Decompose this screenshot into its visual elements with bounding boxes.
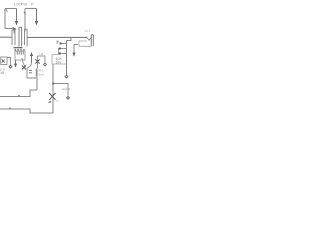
arrow A1 down (right of center) bbox=[74, 45, 78, 54]
loop L2 left wire bbox=[24, 9, 26, 32]
svg-text:10n: 10n bbox=[56, 60, 62, 64]
pin label 2 bbox=[57, 41, 59, 43]
wire main left bbox=[0, 36, 12, 38]
junction dot branch bbox=[52, 83, 54, 85]
wire curve from J1 to K1 coil bbox=[22, 58, 26, 67]
transformer T1 lead ticks bbox=[15, 49, 24, 51]
svg-text:vB: vB bbox=[1, 71, 5, 75]
svg-text:RV1: RV1 bbox=[85, 29, 91, 33]
transformer T1 winding b bbox=[25, 29, 28, 46]
wire down from S1 bbox=[52, 64, 54, 113]
wire staircase A bbox=[0, 90, 37, 97]
adjust cross X2 bbox=[22, 65, 26, 69]
svg-text:LOOP B: LOOP B bbox=[14, 2, 27, 7]
wire B1 to terminal bbox=[7, 58, 11, 65]
relay K1 bracket top bbox=[38, 55, 46, 57]
buzzer BZ1 double right edge bbox=[91, 35, 93, 47]
loop L2 down arrow bbox=[36, 9, 38, 22]
wire curve from A2 to K1 coil bbox=[28, 63, 32, 69]
adjust cross X3 bbox=[49, 93, 55, 100]
switch S1 rung 3 bbox=[59, 53, 67, 55]
loop L1 corner tick bbox=[6, 9, 8, 11]
connector J1 comb pins bbox=[17, 51, 23, 54]
loop L1 drop wire bbox=[13, 30, 15, 34]
svg-text:w: w bbox=[56, 99, 59, 103]
junction dot rung2 bbox=[59, 48, 61, 50]
switch S1 rung 1 bbox=[60, 43, 67, 45]
relay K1 inner dashes bbox=[29, 71, 32, 73]
switch S1 rung 2 bbox=[59, 48, 67, 50]
transformer T1 core pair bbox=[19, 27, 22, 46]
terminal diamond D4 bbox=[67, 96, 70, 99]
relay K1 bracket right leg bbox=[44, 56, 46, 63]
arrow A3 down from J1 bbox=[15, 61, 17, 65]
switch S1 ladder right vertical bbox=[66, 41, 68, 75]
terminal diamond D1 bbox=[44, 63, 47, 66]
wire bottom B bbox=[0, 109, 53, 113]
loop L2 top wire bbox=[25, 8, 37, 10]
svg-text:5off: 5off bbox=[39, 73, 44, 77]
loop L1 top wire bbox=[5, 8, 17, 10]
switch S1 left vertical bbox=[58, 49, 60, 55]
junction dot rung3 bbox=[59, 53, 61, 55]
loop L2 tick bbox=[24, 12, 26, 14]
component B1 box bbox=[1, 57, 7, 65]
junction dot rung1 bbox=[60, 43, 62, 45]
svg-text:HQ(4): HQ(4) bbox=[62, 87, 70, 91]
arrow A2 up bbox=[31, 56, 33, 63]
component B1 mark bbox=[2, 60, 5, 63]
relay K1 coil box bbox=[27, 68, 37, 78]
relay K1 bracket left leg bbox=[37, 56, 39, 68]
loop L1 left wire bbox=[5, 9, 13, 29]
svg-text:LB: LB bbox=[40, 52, 44, 56]
loop L1 down arrow bbox=[16, 9, 18, 22]
relay K1 coil bumps bbox=[36, 69, 37, 77]
buzzer BZ1 box bbox=[79, 41, 91, 46]
terminal diamond D2 bbox=[9, 65, 12, 68]
switch S1 top link to main wire bbox=[67, 37, 72, 40]
loop L1 corner arrow bbox=[13, 27, 17, 31]
wire branch right bbox=[53, 84, 68, 96]
tick on wire B bbox=[9, 107, 11, 109]
adjust cross X1 bbox=[35, 59, 39, 63]
wire main right bbox=[27, 36, 87, 38]
box U1 outline bbox=[52, 55, 67, 65]
wire dip into BZ1 bbox=[87, 37, 91, 40]
connector J1 comb box bbox=[15, 51, 25, 60]
transformer T1 base bar bbox=[14, 47, 23, 49]
wire K1 down bbox=[36, 78, 38, 90]
transformer T1 winding a bbox=[12, 30, 15, 45]
tick on staircase A bbox=[18, 95, 20, 97]
svg-text:P: P bbox=[31, 2, 34, 7]
terminal diamond D3 bbox=[65, 75, 68, 78]
